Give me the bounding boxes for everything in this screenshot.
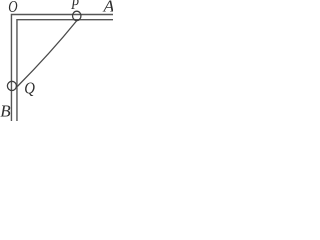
ring at P [73,11,81,20]
svg-text:Q: Q [24,80,35,98]
inner wall line corner [17,20,114,122]
ring at Q [7,81,16,90]
outer wall line corner O-A / O-B [11,15,113,122]
rod P-Q diagonal [17,21,77,87]
svg-text:B: B [0,101,11,120]
svg-text:A: A [102,0,113,16]
svg-text:O: O [8,0,17,17]
svg-text:P: P [70,0,79,13]
